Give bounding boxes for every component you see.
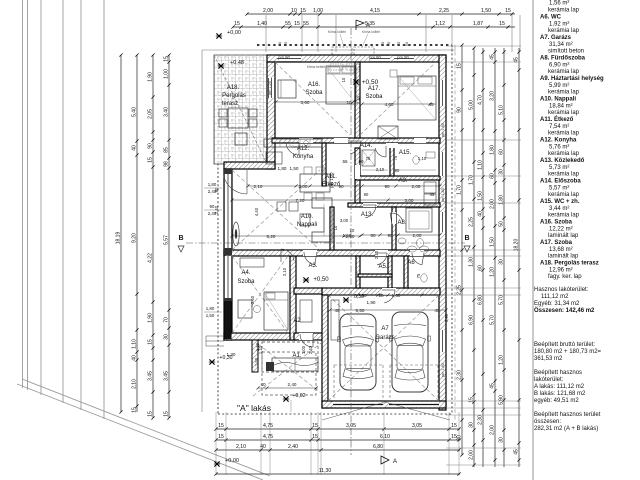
svg-text:pm 90: pm 90 — [278, 55, 290, 60]
svg-text:90: 90 — [361, 293, 367, 298]
svg-text:45: 45 — [430, 192, 435, 197]
wall garage south — [322, 401, 446, 408]
svg-text:6,90: 6,90 — [469, 315, 475, 325]
svg-text:Beépített hasznos terület: Beépített hasznos terület — [534, 412, 601, 418]
svg-text:15: 15 — [234, 21, 240, 27]
window A8 east — [439, 212, 446, 232]
svg-text:45: 45 — [434, 308, 440, 313]
svg-text:Szoba: Szoba — [305, 90, 323, 96]
wall step (pergola south) — [224, 162, 275, 169]
svg-text:2,10: 2,10 — [374, 250, 379, 259]
svg-text:lakóterület:: lakóterület: — [534, 377, 564, 383]
svg-text:kerámia lap: kerámia lap — [548, 110, 580, 116]
svg-text:A15. WC + zh.: A15. WC + zh. — [540, 199, 580, 205]
svg-text:1,10: 1,10 — [132, 339, 138, 349]
svg-text:A9. Háztartási helység: A9. Háztartási helység — [540, 76, 604, 82]
wall A5 west — [388, 256, 392, 288]
svg-text:Pergolás: Pergolás — [222, 93, 246, 99]
nightstand A17 — [390, 70, 397, 77]
terrace sliding door (black) — [225, 300, 232, 339]
svg-text:15: 15 — [505, 8, 511, 14]
svg-text:4,75: 4,75 — [263, 423, 273, 429]
window garage east — [439, 330, 446, 352]
wall top (A16/A17) — [267, 55, 446, 62]
svg-text:Nappali: Nappali — [297, 222, 317, 228]
door arc étkező — [350, 141, 361, 154]
svg-text:2,40: 2,40 — [288, 382, 297, 387]
svg-text:5,57: 5,57 — [164, 235, 170, 245]
level marker +0,50 A17 — [353, 79, 359, 84]
toilet A6 — [421, 274, 427, 282]
svg-text:1,50: 1,50 — [490, 237, 496, 247]
svg-text:1,70: 1,70 — [457, 185, 463, 195]
svg-text:85: 85 — [164, 147, 170, 153]
svg-text:egyéb: 49,51 m2: egyéb: 49,51 m2 — [534, 398, 579, 404]
svg-text:A16. Szoba: A16. Szoba — [540, 220, 573, 226]
svg-text:7,54 m²: 7,54 m² — [549, 124, 569, 130]
svg-text:1,80: 1,80 — [206, 306, 215, 311]
svg-text:5,70: 5,70 — [490, 315, 496, 325]
bathtub A8 — [406, 208, 432, 232]
svg-text:6,80: 6,80 — [373, 444, 383, 450]
svg-text:1,50: 1,50 — [481, 8, 491, 14]
svg-text:A9.: A9. — [398, 178, 407, 184]
svg-text:pm 90: pm 90 — [397, 55, 409, 60]
level marker +0,00 top-left — [216, 33, 222, 38]
steps SW corner — [206, 335, 224, 337]
svg-text:B lakás: 121,68 m2: B lakás: 121,68 m2 — [534, 391, 586, 397]
svg-text:3,44 m²: 3,44 m² — [549, 206, 569, 212]
cabinet A2 — [300, 300, 312, 322]
desk A4 — [238, 300, 252, 318]
svg-text:5,20: 5,20 — [267, 234, 276, 239]
svg-text:10: 10 — [346, 100, 352, 105]
svg-text:18,20: 18,20 — [514, 239, 520, 252]
bottom extension lines — [215, 412, 217, 475]
section flag A top — [356, 20, 364, 30]
pergola chairs — [219, 109, 227, 117]
armchairs A10 — [277, 202, 286, 211]
svg-text:90: 90 — [395, 168, 400, 173]
svg-text:2,00: 2,00 — [490, 199, 496, 209]
dimension chain left 1 (18,19) — [116, 53, 123, 413]
svg-text:1,80: 1,80 — [278, 166, 287, 171]
svg-text:1,92 m²: 1,92 m² — [549, 22, 569, 28]
pergola small planter — [235, 133, 247, 145]
svg-text:A8. Fürdőszoba: A8. Fürdőszoba — [540, 56, 586, 62]
garage shelf — [331, 300, 339, 340]
dining table A11 — [300, 174, 330, 192]
door arc A13 — [377, 253, 387, 265]
svg-text:15: 15 — [312, 434, 318, 440]
closet A14 — [362, 150, 375, 166]
svg-text:1,87: 1,87 — [473, 21, 483, 27]
window A17 north 1 — [370, 55, 390, 62]
door gap kitchen — [299, 138, 313, 143]
sofa A16 — [278, 80, 296, 98]
svg-text:2,25: 2,25 — [469, 217, 475, 227]
svg-text:A1.: A1. — [292, 353, 301, 359]
svg-text:60: 60 — [499, 149, 505, 155]
svg-text:pm 1,80: pm 1,80 — [441, 188, 445, 202]
svg-text:3,40: 3,40 — [164, 107, 170, 117]
svg-text:282,31 m2 (A + B lakás): 282,31 m2 (A + B lakás) — [534, 426, 598, 432]
wall corridor west — [355, 148, 360, 203]
svg-text:Klíma beltéri: Klíma beltéri — [307, 65, 326, 69]
svg-text:A5.: A5. — [378, 264, 387, 270]
wall A3 east — [356, 256, 360, 288]
svg-text:kerámia lap: kerámia lap — [548, 192, 580, 198]
svg-text:A2: A2 — [293, 318, 301, 324]
svg-text:A8.: A8. — [397, 220, 406, 226]
wall A4/A2 divider — [290, 256, 296, 340]
bottom dim row 4 (11,30) — [216, 473, 460, 475]
svg-text:A lakás: 111,12 m2: A lakás: 111,12 m2 — [534, 384, 585, 390]
svg-text:A10. Nappali: A10. Nappali — [540, 97, 576, 103]
wall under A16/A17 — [272, 138, 440, 143]
svg-text:fagy. ker. lap: fagy. ker. lap — [548, 274, 582, 280]
svg-text:A6: A6 — [407, 260, 415, 266]
door gap garage — [382, 288, 396, 295]
car 2 in garage — [390, 312, 431, 392]
svg-text:laminált lap: laminált lap — [548, 254, 579, 260]
svg-text:3,00: 3,00 — [299, 184, 308, 189]
door gap A13/A8 — [392, 212, 396, 224]
garage door swing dashed — [334, 365, 438, 401]
level marker +0,02 line — [290, 400, 292, 412]
svg-text:kerámia lap: kerámia lap — [548, 90, 580, 96]
door arc A8 — [412, 253, 422, 265]
svg-text:15: 15 — [294, 21, 300, 27]
dimension chain right 2 — [469, 46, 476, 467]
svg-text:2,40: 2,40 — [208, 211, 217, 216]
svg-text:3,60: 3,60 — [250, 295, 255, 304]
dimension chain left 3 — [148, 53, 155, 419]
dimension chain left 2 — [132, 53, 139, 412]
svg-text:31,34 m²: 31,34 m² — [549, 42, 573, 48]
svg-text:6,90 m²: 6,90 m² — [549, 63, 569, 69]
svg-text:2,10: 2,10 — [236, 444, 246, 450]
svg-text:5,76 m²: 5,76 m² — [549, 145, 569, 151]
wall A13/A8 divider — [392, 207, 396, 250]
svg-text:1,10: 1,10 — [258, 345, 263, 354]
right extension lines — [446, 45, 521, 47]
svg-text:4,40: 4,40 — [254, 207, 259, 216]
svg-text:3,00: 3,00 — [405, 198, 414, 203]
svg-text:A3.: A3. — [308, 263, 317, 269]
svg-text:2,00: 2,00 — [469, 450, 475, 460]
separator line text column — [532, 0, 534, 480]
svg-text:55: 55 — [285, 21, 291, 27]
svg-text:kerámia lap: kerámia lap — [548, 131, 580, 137]
svg-text:A: A — [366, 23, 370, 29]
porch wall stub west — [252, 340, 258, 372]
svg-text:45: 45 — [514, 449, 520, 455]
svg-text:+0,00: +0,00 — [227, 30, 241, 36]
svg-text:A17. Szoba: A17. Szoba — [540, 240, 573, 246]
svg-text:5,00: 5,00 — [469, 100, 475, 110]
door gap A13 south — [375, 250, 388, 256]
svg-text:15: 15 — [469, 397, 475, 403]
wall upper-left (A16 west) — [267, 62, 275, 169]
svg-text:Hasznos lakóterület:: Hasznos lakóterület: — [534, 287, 589, 293]
svg-text:+0,50: +0,50 — [362, 79, 379, 86]
top dimension row 2 — [233, 26, 515, 28]
door arc entry A1 — [300, 334, 313, 347]
top dimension row 1 — [247, 13, 515, 15]
svg-text:4,22: 4,22 — [148, 253, 154, 263]
porch dim row — [258, 387, 318, 389]
svg-text:2,00: 2,00 — [490, 425, 496, 435]
roof overhang dashed outline — [257, 44, 452, 46]
door arc A4 — [304, 252, 315, 265]
svg-text:40: 40 — [132, 355, 138, 361]
door arc A8 west — [390, 213, 403, 222]
wall A5 north — [358, 274, 392, 277]
wall A6 west — [404, 256, 408, 288]
svg-text:2,05: 2,05 — [412, 184, 421, 189]
svg-text:2,40: 2,40 — [308, 345, 313, 354]
svg-text:1,20: 1,20 — [499, 355, 505, 365]
svg-text:3,45: 3,45 — [164, 371, 170, 381]
dimension chain right 4 — [490, 48, 497, 467]
door gap étkező — [334, 138, 348, 143]
wall garage north — [322, 288, 440, 295]
svg-text:1,50: 1,50 — [254, 357, 259, 366]
svg-text:15: 15 — [148, 157, 154, 163]
level marker -0,30 garage — [343, 297, 349, 302]
porch A1 dashed boundary — [262, 342, 318, 372]
svg-text:50: 50 — [499, 221, 505, 227]
svg-text:A11. Étkező: A11. Étkező — [540, 115, 574, 123]
door gap A9 — [363, 203, 377, 207]
pergola terrace A18 hatched area — [214, 55, 267, 164]
svg-text:kerámia lap: kerámia lap — [548, 69, 580, 75]
svg-text:2,10: 2,10 — [376, 167, 385, 172]
pergola beam lines dashed — [214, 55, 267, 164]
dimension chain right 3 — [478, 48, 485, 467]
svg-text:kerámia lap: kerámia lap — [548, 213, 580, 219]
top extension lines — [265, 15, 267, 52]
svg-text:3,20: 3,20 — [490, 91, 496, 101]
wall A2 north — [294, 288, 322, 294]
level marker +0,30 A1 — [209, 359, 215, 364]
svg-text:6,10: 6,10 — [380, 434, 390, 440]
svg-text:1,50: 1,50 — [343, 233, 352, 238]
level marker +0,00 bottom — [214, 461, 220, 466]
window A16 north — [277, 55, 301, 62]
svg-text:A18.: A18. — [227, 85, 240, 91]
svg-text:12,22 m²: 12,22 m² — [549, 227, 573, 233]
dim line row nappali — [248, 185, 360, 187]
svg-text:55: 55 — [342, 159, 348, 164]
svg-text:A4.: A4. — [241, 270, 250, 276]
dim line row garage top — [330, 294, 446, 296]
svg-text:5,50: 5,50 — [356, 308, 365, 313]
svg-text:2,40: 2,40 — [208, 189, 217, 194]
svg-text:15: 15 — [300, 8, 306, 14]
wall nappali south — [224, 250, 440, 256]
bench in porch (curved) — [272, 358, 318, 371]
section line A vertical dash-dot — [350, 28, 352, 455]
svg-text:1,50: 1,50 — [290, 166, 299, 171]
svg-text:A18. Pergolás terasz: A18. Pergolás terasz — [540, 261, 599, 267]
svg-text:10: 10 — [350, 228, 355, 233]
svg-text:5,70: 5,70 — [499, 295, 505, 305]
svg-text:18,84 m²: 18,84 m² — [549, 104, 573, 110]
garage door opening 1 — [333, 402, 383, 407]
wardrobe A4 — [240, 258, 264, 267]
svg-text:2,10: 2,10 — [132, 379, 138, 389]
svg-text:1,90: 1,90 — [148, 72, 154, 82]
svg-text:pm 90: pm 90 — [369, 55, 381, 60]
svg-text:3,05: 3,05 — [346, 423, 356, 429]
section marker A bottom — [381, 456, 389, 464]
svg-text:75: 75 — [416, 273, 421, 278]
svg-text:5,99 m²: 5,99 m² — [549, 83, 569, 89]
svg-text:1,60: 1,60 — [392, 293, 401, 298]
plot boundary thin line top — [202, 49, 456, 51]
svg-text:kerámia lap: kerámia lap — [548, 8, 580, 14]
garage roof hip lines bottom — [322, 402, 385, 420]
coffee table A10 — [300, 214, 310, 226]
svg-text:1,80: 1,80 — [208, 182, 217, 187]
radiator nappali west wall — [233, 222, 239, 246]
dimension chain left 4 — [164, 53, 171, 419]
svg-text:2,10: 2,10 — [254, 184, 263, 189]
svg-text:7,20: 7,20 — [296, 198, 305, 203]
svg-text:13,68 m²: 13,68 m² — [549, 247, 573, 253]
svg-text:30: 30 — [469, 422, 475, 428]
svg-text:5,90: 5,90 — [499, 395, 505, 405]
svg-text:A12. Konyha: A12. Konyha — [540, 138, 577, 144]
svg-text:simított beton: simított beton — [548, 49, 584, 55]
wall bottom house — [224, 333, 296, 340]
svg-text:90: 90 — [384, 184, 390, 189]
bed A16 — [326, 66, 356, 104]
door arc A14 — [375, 148, 386, 157]
svg-text:90: 90 — [457, 107, 463, 113]
wall A9 south — [348, 203, 440, 207]
svg-text:55: 55 — [303, 21, 309, 27]
svg-text:1,00: 1,00 — [301, 345, 306, 354]
svg-text:B: B — [178, 235, 183, 242]
door arc A9 — [365, 205, 376, 218]
svg-text:pm 1,80: pm 1,80 — [441, 123, 445, 137]
svg-text:összesen:: összesen: — [534, 419, 561, 425]
svg-text:1,56 m²: 1,56 m² — [549, 1, 569, 7]
door gap corridor — [355, 165, 360, 179]
wall posts nappali west — [224, 169, 232, 174]
svg-text:111,12 m2: 111,12 m2 — [541, 294, 569, 300]
svg-text:40: 40 — [260, 382, 266, 387]
svg-text:75: 75 — [393, 155, 398, 160]
garage door opening 2 — [389, 402, 439, 407]
svg-text:A7: A7 — [381, 326, 389, 332]
svg-text:pm 1,20: pm 1,20 — [329, 172, 334, 188]
svg-text:90: 90 — [210, 204, 215, 209]
svg-text:Klíma beltéri: Klíma beltéri — [291, 145, 310, 149]
svg-text:1,40: 1,40 — [257, 21, 267, 27]
entry mat black — [266, 362, 274, 371]
svg-text:90: 90 — [364, 192, 369, 197]
svg-text:+0,50: +0,50 — [313, 277, 329, 283]
svg-text:90: 90 — [358, 159, 364, 164]
svg-text:+0,48: +0,48 — [230, 60, 244, 66]
dim line row szoba top — [276, 101, 356, 103]
wall A13 west — [330, 207, 334, 250]
section line B-B horizontal dash-dot — [186, 242, 465, 244]
svg-text:180,80 m2 + 180,73 m2=: 180,80 m2 + 180,73 m2= — [534, 349, 602, 355]
svg-text:30: 30 — [499, 169, 505, 175]
bottom dim row 3 — [216, 449, 460, 451]
svg-text:18,19: 18,19 — [116, 232, 122, 245]
svg-text:1,20: 1,20 — [490, 267, 496, 277]
svg-text:A: A — [393, 459, 397, 465]
svg-text:90: 90 — [338, 184, 344, 189]
svg-text:A14. Előszoba: A14. Előszoba — [540, 179, 581, 185]
svg-text:3,05: 3,05 — [412, 423, 422, 429]
svg-text:laminált lap: laminált lap — [548, 233, 579, 239]
svg-text:A14.: A14. — [360, 143, 373, 149]
svg-text:5,57 m²: 5,57 m² — [549, 186, 569, 192]
svg-text:A16.: A16. — [308, 82, 321, 88]
washer dryer A9 — [424, 182, 436, 193]
svg-text:3,00: 3,00 — [340, 218, 349, 223]
svg-text:1,50: 1,50 — [478, 191, 484, 201]
svg-text:Szoba: Szoba — [365, 94, 383, 100]
door arc garage entry — [384, 290, 395, 303]
door arc pergola-nappali — [224, 175, 248, 194]
svg-text:1,00: 1,00 — [313, 8, 323, 14]
door gap A4 — [303, 250, 317, 256]
window A16 west — [268, 78, 275, 98]
svg-text:1,80: 1,80 — [499, 195, 505, 205]
svg-text:10: 10 — [333, 225, 338, 230]
svg-text:80: 80 — [370, 233, 376, 238]
svg-text:pm 1,20: pm 1,20 — [268, 81, 272, 95]
window nappali west (band) — [224, 174, 232, 248]
svg-text:Beépített hasznos: Beépített hasznos — [534, 370, 582, 376]
wall garage west — [322, 295, 328, 408]
svg-text:1,90: 1,90 — [367, 300, 376, 305]
svg-text:4,75: 4,75 — [263, 434, 273, 440]
svg-text:2,40: 2,40 — [288, 444, 298, 450]
sink A15 — [426, 152, 435, 158]
level +0,48 pergola — [218, 63, 224, 68]
svg-text:12,96 m²: 12,96 m² — [549, 268, 573, 274]
toilet A15 — [413, 156, 419, 164]
bed A17 — [398, 76, 436, 120]
svg-text:15: 15 — [164, 411, 170, 417]
toilet A8 — [417, 239, 424, 248]
door gap A15 — [414, 138, 426, 143]
wall right — [439, 55, 446, 410]
svg-text:A13.: A13. — [361, 212, 374, 218]
plot boundary diagonal (bottom-left) — [17, 384, 263, 480]
door gap A14 — [386, 143, 398, 148]
svg-text:1,00: 1,00 — [164, 69, 170, 79]
bottom dim row 1 — [216, 428, 460, 430]
door gap entry — [299, 333, 313, 340]
svg-text:10: 10 — [341, 77, 346, 82]
svg-text:kerámia lap: kerámia lap — [548, 151, 580, 157]
door arc A4 inner — [281, 249, 294, 261]
sinks A6 — [408, 246, 417, 252]
svg-text:1,80: 1,80 — [490, 145, 496, 155]
svg-text:Klíma kültéri: Klíma kültéri — [328, 30, 346, 34]
svg-text:5,73 m²: 5,73 m² — [549, 165, 569, 171]
